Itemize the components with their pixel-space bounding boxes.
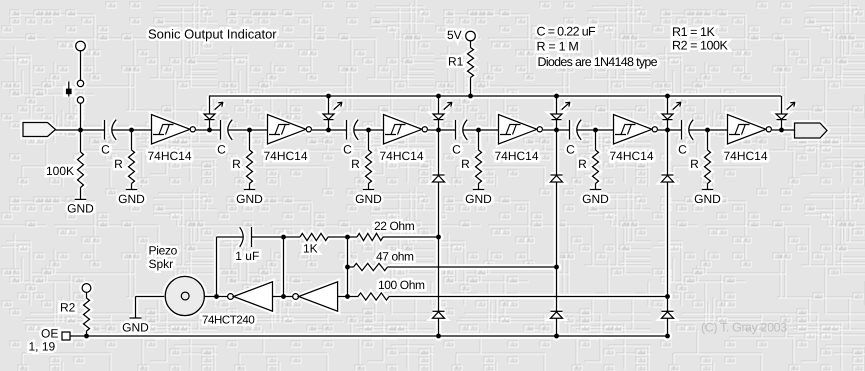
wire junction <box>436 334 441 339</box>
diode D4 triangle <box>551 114 562 119</box>
svg-text:74HC14: 74HC14 <box>148 149 192 163</box>
inverter U2 output bubble <box>306 127 311 132</box>
wire 1K branch riser <box>283 237 285 297</box>
diode D8 cathode bar <box>551 174 563 176</box>
wire main line segment <box>112 129 152 131</box>
wire switch terminal to contact <box>80 51 82 80</box>
wire junction <box>84 334 89 339</box>
diode D1 triangle <box>204 114 215 119</box>
wire rail to diode D5 <box>667 96 669 114</box>
rail junction <box>436 94 441 99</box>
wire diode D5 to output node <box>667 120 669 130</box>
capacitor C5 plate <box>569 120 571 140</box>
diode D3 arrow shaft <box>444 102 452 109</box>
diode D12 cathode bar <box>662 310 674 312</box>
svg-text:74HCT240: 74HCT240 <box>202 315 254 327</box>
svg-text:22 Ohm: 22 Ohm <box>374 219 415 233</box>
svg-text:R2: R2 <box>60 301 76 315</box>
wire junction <box>129 128 134 133</box>
wire to 100 Ohm <box>348 296 359 298</box>
inverter U5 schmitt hysteresis symbol <box>615 125 636 135</box>
wire junction <box>554 334 559 339</box>
diode D6 triangle <box>776 114 787 119</box>
wire junction <box>665 294 670 299</box>
wire diode D11 to OE line <box>556 318 558 336</box>
capacitor 1uF curved plate <box>240 227 244 246</box>
wire junction <box>665 334 670 339</box>
diode D2 arrow head <box>337 102 342 106</box>
svg-text:R: R <box>232 157 241 171</box>
svg-text:GND: GND <box>694 192 721 206</box>
diode D7 triangle <box>433 176 445 183</box>
wire main line segment <box>689 129 728 131</box>
op-amp style inverter U5 74HC14 triangle <box>614 115 653 145</box>
wire diode D6 to output node <box>781 120 783 130</box>
wire junction <box>476 128 481 133</box>
wire buffer1 to buffer2 <box>273 296 293 298</box>
resistor R stage 5 <box>593 150 599 184</box>
capacitor C1 curved plate <box>112 120 116 140</box>
wire 47 ohm to tap <box>388 266 557 268</box>
wire diode D2 to output node <box>328 120 330 130</box>
svg-text:C: C <box>452 143 461 157</box>
wire node to R stage 5 <box>595 130 597 150</box>
resistor R stage 4 <box>476 150 482 184</box>
wire 1K to 22 Ohm <box>328 236 357 238</box>
wire junction <box>593 128 598 133</box>
svg-text:OE: OE <box>41 327 58 341</box>
buffer U2b 74HCT240 triangle <box>299 282 338 311</box>
rail junction <box>554 94 559 99</box>
wire switch to main line <box>80 103 82 130</box>
wire 5V rail <box>209 95 781 97</box>
diode D5 arrow shaft <box>673 102 681 109</box>
diode D10 triangle <box>433 312 445 319</box>
diode D1 arrow head <box>218 102 223 106</box>
wire diode D1 to output node <box>209 120 211 130</box>
inverter U6 output bubble <box>766 127 771 132</box>
capacitor C1 plate <box>104 120 106 140</box>
wire 5V to R1 <box>470 41 472 48</box>
diode D4 arrow shaft <box>562 102 570 109</box>
wire R to ground stage 1 <box>131 184 133 190</box>
wire main line segment <box>354 129 384 131</box>
wire diode D10 to OE line <box>438 318 440 336</box>
svg-text:R: R <box>461 157 470 171</box>
wire junction <box>366 128 371 133</box>
wire diode D8 to 47 ohm node <box>556 182 558 267</box>
resistor R2 <box>84 298 90 331</box>
OE terminal square <box>62 332 70 340</box>
wire junction <box>436 235 441 240</box>
svg-text:74HC14: 74HC14 <box>495 149 539 163</box>
output connector tag <box>795 123 828 138</box>
svg-text:C: C <box>343 143 352 157</box>
wire diode D7 to 22 Ohm node <box>438 182 440 237</box>
ground bar stage 1 <box>126 189 137 191</box>
wire R to ground stage 3 <box>368 184 370 190</box>
buffer U2b bubble <box>293 294 299 300</box>
rail junction <box>468 94 473 99</box>
wire 22ohm node riser <box>347 237 349 297</box>
wire down to 100K <box>80 130 82 152</box>
svg-text:GND: GND <box>355 192 382 206</box>
diode D3 arrow head <box>447 102 452 106</box>
wire piezo to ground <box>136 296 165 298</box>
capacitor C2 curved plate <box>228 120 232 140</box>
diode D7 cathode bar <box>433 174 445 176</box>
svg-text:Sonic Output Indicator: Sonic Output Indicator <box>148 27 277 42</box>
svg-text:(C) T. Gray 2003: (C) T. Gray 2003 <box>701 321 787 335</box>
svg-text:C: C <box>678 143 687 157</box>
inverter U3 schmitt hysteresis symbol <box>385 125 406 135</box>
resistor 100 Ohm <box>358 293 389 300</box>
svg-text:R: R <box>351 157 360 171</box>
ground bar stage 4 <box>473 189 484 191</box>
wire diode D4 to output node <box>556 120 558 130</box>
svg-text:R: R <box>114 157 123 171</box>
wire to 1uF cap <box>217 236 244 238</box>
diode D3 cathode bar <box>434 119 444 121</box>
op-amp style inverter U6 74HC14 triangle <box>728 115 767 145</box>
svg-text:74HC14: 74HC14 <box>264 149 308 163</box>
wire R to ground stage 5 <box>595 184 597 190</box>
wire junction <box>345 294 350 299</box>
wire main line segment <box>463 129 499 131</box>
capacitor C3 curved plate <box>354 120 358 140</box>
wire main line segment <box>577 129 614 131</box>
diode D9 triangle <box>662 176 674 183</box>
wire junction <box>554 265 559 270</box>
svg-text:100 Ohm: 100 Ohm <box>378 278 425 292</box>
svg-text:R1 = 1K: R1 = 1K <box>672 25 715 39</box>
svg-text:R: R <box>578 157 587 171</box>
wire junction <box>705 128 710 133</box>
wire main line segment <box>196 129 221 131</box>
piezo speaker center <box>181 292 189 300</box>
svg-text:74HC14: 74HC14 <box>724 149 768 163</box>
diode D11 cathode bar <box>551 310 563 312</box>
svg-text:R: R <box>690 157 699 171</box>
ground bar stage 5 <box>590 189 601 191</box>
resistor R stage 1 <box>129 150 135 184</box>
wire ground drop piezo <box>135 297 137 319</box>
buffer U2a bubble <box>228 294 234 300</box>
inverter U3 output bubble <box>422 127 427 132</box>
wire junction <box>247 128 252 133</box>
wire node to R stage 4 <box>478 130 480 150</box>
wire terminal to R2 <box>86 292 88 298</box>
buffer U2a 74HCT240 triangle <box>234 282 273 311</box>
op-amp style inverter U4 74HC14 triangle <box>499 115 538 145</box>
wire 100 Ohm to tap <box>389 296 668 298</box>
wire junction <box>554 128 559 133</box>
resistor 22 Ohm <box>357 233 383 240</box>
resistor R1 <box>468 48 474 78</box>
diode D11 triangle <box>551 312 563 319</box>
ground bar stage 2 <box>244 189 255 191</box>
diode D3 triangle <box>433 114 444 119</box>
capacitor 1uF plate <box>251 227 253 247</box>
wire junction <box>779 128 784 133</box>
ground bar piezo <box>130 317 142 319</box>
svg-text:47 ohm: 47 ohm <box>376 250 414 264</box>
wire inverter 6 to output tag <box>772 129 795 131</box>
diode D12 triangle <box>662 312 674 319</box>
R2 top terminal <box>82 284 91 293</box>
node input/100K/switch junction <box>78 128 83 133</box>
wire diode D9 to 100 Ohm node <box>667 182 669 297</box>
wire rail to diode D4 <box>556 96 558 114</box>
diode D5 triangle <box>662 114 673 119</box>
capacitor C3 plate <box>346 120 348 140</box>
resistor 1K <box>300 233 328 240</box>
wire junction <box>207 128 212 133</box>
diode D4 cathode bar <box>552 119 562 121</box>
diode D8 triangle <box>551 176 563 183</box>
wire main line segment <box>428 129 456 131</box>
op-amp style inverter U2 74HC14 triangle <box>268 115 307 145</box>
wire stage4 output down <box>556 130 558 175</box>
wire junction <box>281 235 286 240</box>
wire junction <box>665 128 670 133</box>
wire R to ground stage 4 <box>478 184 480 190</box>
svg-text:Diodes are 1N4148 type: Diodes are 1N4148 type <box>538 55 658 69</box>
wire node to R stage 2 <box>249 130 251 150</box>
inverter U4 schmitt hysteresis symbol <box>500 125 521 135</box>
wire 100K to ground <box>80 188 82 200</box>
svg-text:GND: GND <box>236 192 263 206</box>
wire 1uF branch riser <box>216 237 218 297</box>
5V terminal <box>466 31 476 41</box>
capacitor C2 plate <box>220 120 222 140</box>
wire piezo to buffer 1 <box>204 296 228 298</box>
wire rail to diode D6 <box>781 96 783 114</box>
wire rail to diode D1 <box>209 96 211 114</box>
wire rail to diode D3 <box>438 96 440 114</box>
wire node to R stage 6 <box>707 130 709 150</box>
op-amp style inverter U3 74HC14 triangle <box>384 115 423 145</box>
wire main line segment <box>228 129 268 131</box>
svg-text:GND: GND <box>118 192 145 206</box>
svg-text:C: C <box>566 143 575 157</box>
diode D6 arrow shaft <box>787 102 795 109</box>
svg-text:R2 = 100K: R2 = 100K <box>672 39 728 53</box>
wire input tag to C1 <box>56 129 105 131</box>
wire stage3 output down <box>438 130 440 175</box>
wire buffer2 input <box>338 296 348 298</box>
ground bar 100K <box>75 198 87 200</box>
capacitor C6 plate <box>681 120 683 140</box>
wire 47 ohm node down <box>556 267 558 311</box>
wire junction <box>214 294 219 299</box>
diode D2 triangle <box>323 114 334 119</box>
svg-text:Piezo: Piezo <box>149 244 178 258</box>
svg-text:GND: GND <box>465 192 492 206</box>
wire junction <box>436 128 441 133</box>
inverter U4 output bubble <box>537 127 542 132</box>
svg-text:1K: 1K <box>303 242 318 256</box>
diode D2 cathode bar <box>324 119 334 121</box>
svg-text:74HC14: 74HC14 <box>380 149 424 163</box>
diode D5 arrow head <box>676 102 681 106</box>
wire rail to diode D2 <box>328 96 330 114</box>
inverter U1 output bubble <box>190 127 195 132</box>
diode D6 arrow head <box>790 102 795 106</box>
piezo speaker body <box>165 276 204 315</box>
inverter U5 output bubble <box>652 127 657 132</box>
svg-text:Spkr: Spkr <box>149 257 174 271</box>
op-amp style inverter U1 74HC14 triangle <box>152 115 191 145</box>
svg-text:100K: 100K <box>46 164 74 178</box>
diode D1 arrow shaft <box>215 102 223 109</box>
svg-text:74HC14: 74HC14 <box>610 149 654 163</box>
wire 100 Ohm node down <box>667 297 669 312</box>
svg-text:GND: GND <box>67 201 94 215</box>
capacitor C5 curved plate <box>577 120 581 140</box>
wire main line segment <box>543 129 570 131</box>
wire junction <box>326 128 331 133</box>
switch top terminal <box>76 41 86 51</box>
capacitor C4 plate <box>455 120 457 140</box>
wire R to ground stage 2 <box>249 184 251 190</box>
wire stage5 output down <box>667 130 669 175</box>
diode D10 cathode bar <box>433 310 445 312</box>
diode D6 cathode bar <box>777 119 787 121</box>
resistor R stage 3 <box>366 150 372 184</box>
wire main line segment <box>312 129 347 131</box>
svg-text:R1: R1 <box>448 55 464 69</box>
input connector tag <box>23 123 56 137</box>
svg-text:C = 0.22 uF: C = 0.22 uF <box>537 25 597 39</box>
ground bar stage 6 <box>702 189 713 191</box>
inverter U6 schmitt hysteresis symbol <box>729 125 750 135</box>
svg-text:GND: GND <box>122 321 149 335</box>
wire 1uF to 1K <box>252 236 301 238</box>
wire R to ground stage 6 <box>707 184 709 190</box>
wire node to R stage 1 <box>131 130 133 150</box>
resistor R stage 2 <box>247 150 253 184</box>
wire to 47 ohm <box>348 266 354 268</box>
diode D2 arrow shaft <box>334 102 342 109</box>
svg-text:1, 19: 1, 19 <box>29 340 56 354</box>
pushbutton actuator bar <box>68 82 70 97</box>
resistor R stage 6 <box>705 150 711 184</box>
wire 22 Ohm node down <box>438 237 440 311</box>
svg-text:C: C <box>217 143 226 157</box>
capacitor C4 curved plate <box>463 120 467 140</box>
wire junction <box>345 235 350 240</box>
resistor 47 ohm <box>354 263 388 270</box>
wire node to R stage 3 <box>368 130 370 150</box>
diode D9 cathode bar <box>662 174 674 176</box>
svg-text:1 uF: 1 uF <box>235 249 259 263</box>
switch contact upper <box>77 80 83 86</box>
diode D5 cathode bar <box>663 119 673 121</box>
wire R2 to OE line <box>86 331 88 336</box>
diode D4 arrow head <box>565 102 570 106</box>
wire 22 Ohm to tap <box>383 236 439 238</box>
wire main line segment <box>658 129 682 131</box>
resistor 100K <box>78 152 84 188</box>
rail junction <box>665 94 670 99</box>
capacitor C6 curved plate <box>689 120 693 140</box>
svg-text:R = 1 M: R = 1 M <box>537 40 579 54</box>
switch contact lower <box>77 97 83 103</box>
svg-text:C: C <box>101 143 110 157</box>
inverter U1 schmitt hysteresis symbol <box>153 125 174 135</box>
diode D1 cathode bar <box>205 119 215 121</box>
wire OE enable line <box>70 335 668 337</box>
wire R1 to rail <box>470 78 472 97</box>
ground bar stage 3 <box>363 189 374 191</box>
svg-text:GND: GND <box>582 192 609 206</box>
rail junction <box>326 94 331 99</box>
wire diode D12 to OE line <box>667 318 669 336</box>
wire diode D3 to output node <box>438 120 440 130</box>
svg-text:5V: 5V <box>447 28 462 42</box>
wire junction <box>345 265 350 270</box>
pushbutton knob <box>66 89 72 95</box>
inverter U2 schmitt hysteresis symbol <box>269 125 290 135</box>
wire junction <box>281 294 286 299</box>
